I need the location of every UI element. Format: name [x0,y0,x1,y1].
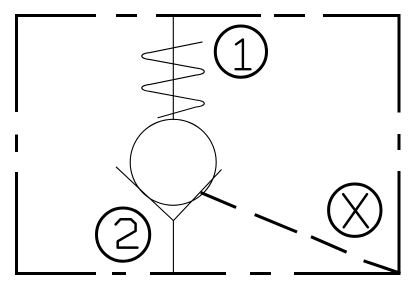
boundary box top edge (dashed) [15,14,401,17]
boundary box right edge (dashed) [398,14,401,275]
pilot line (thick dashed diagonal to port X) [201,193,401,274]
label 2 [116,219,138,247]
port circle 2 [97,208,150,261]
spring [142,42,205,118]
boundary box bottom edge (dashed) [15,272,401,275]
valve seat left arm [116,167,173,221]
wire: vertical line from seat apex to port 2 (bottom edge) [172,221,174,274]
port circle X [329,184,381,236]
valve seat right arm [173,170,221,221]
ball (poppet) [130,119,216,205]
port circle 1 [215,26,266,77]
boundary box left edge (dashed) [15,14,18,275]
label 1 [236,40,251,70]
wire: vertical line from port 1 (top edge) to ball [172,15,174,120]
label X [343,194,368,227]
